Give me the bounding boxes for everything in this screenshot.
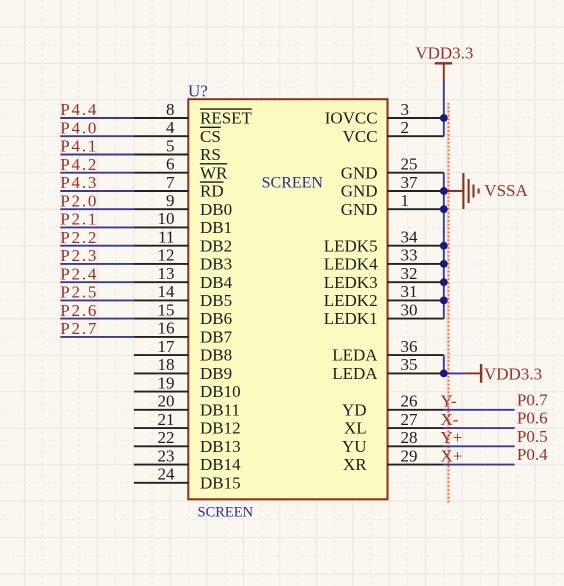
pin 16 DB7 bbox=[134, 319, 233, 347]
pin 6 WR bbox=[134, 155, 228, 183]
pin 24 DB15 bbox=[134, 465, 241, 493]
svg-text:RESET: RESET bbox=[200, 109, 253, 128]
svg-text:DB1: DB1 bbox=[200, 218, 232, 237]
svg-text:DB3: DB3 bbox=[200, 255, 232, 274]
pin 35 LEDA bbox=[332, 355, 444, 383]
svg-text:26: 26 bbox=[401, 392, 418, 411]
pin 37 GND bbox=[341, 173, 444, 201]
wire P4.2 bbox=[60, 172, 134, 174]
net label P4.2 bbox=[60, 155, 98, 174]
svg-text:Y+: Y+ bbox=[441, 428, 463, 447]
svg-text:22: 22 bbox=[158, 428, 175, 447]
svg-text:2: 2 bbox=[401, 118, 410, 137]
junction bbox=[440, 187, 448, 195]
svg-text:P4.0: P4.0 bbox=[60, 118, 98, 137]
pin 26 YD bbox=[342, 392, 444, 420]
svg-text:LEDK2: LEDK2 bbox=[324, 291, 378, 310]
svg-text:SCREEN: SCREEN bbox=[198, 504, 254, 520]
power symbol VDD3.3 (right) bbox=[465, 364, 542, 384]
wire P2.4 bbox=[60, 281, 134, 283]
svg-text:P2.6: P2.6 bbox=[60, 301, 98, 320]
pin 34 LEDK5 bbox=[324, 228, 444, 256]
pin 1 GND bbox=[341, 191, 444, 219]
pin 29 XR bbox=[343, 446, 444, 474]
pin 12 DB3 bbox=[134, 246, 232, 274]
svg-text:GND: GND bbox=[341, 182, 378, 201]
svg-text:DB6: DB6 bbox=[200, 309, 232, 328]
svg-text:P2.4: P2.4 bbox=[60, 264, 98, 283]
net label P2.2 bbox=[60, 228, 98, 247]
net label P0.4 bbox=[517, 445, 548, 464]
wire LEDA to VDD3.3 bbox=[444, 372, 465, 374]
pin 30 LEDK1 bbox=[324, 300, 444, 328]
pin 9 DB0 bbox=[134, 191, 232, 219]
svg-text:P2.5: P2.5 bbox=[60, 283, 98, 302]
wire P4.1 bbox=[60, 154, 134, 156]
svg-text:16: 16 bbox=[158, 319, 175, 338]
net label P0.7 bbox=[517, 390, 548, 409]
pin 32 LEDK3 bbox=[324, 264, 444, 292]
wire P2.5 bbox=[60, 299, 134, 301]
svg-text:28: 28 bbox=[401, 428, 418, 447]
svg-text:P4.2: P4.2 bbox=[60, 155, 98, 174]
svg-text:P2.0: P2.0 bbox=[60, 191, 98, 210]
wire P4.4 bbox=[60, 117, 134, 119]
svg-text:P2.3: P2.3 bbox=[60, 246, 98, 265]
pin 17 DB8 bbox=[134, 337, 232, 365]
svg-text:DB11: DB11 bbox=[200, 400, 240, 419]
pin 10 DB1 bbox=[134, 209, 232, 237]
pin 27 XL bbox=[344, 410, 444, 438]
net label X- bbox=[441, 410, 459, 429]
svg-text:35: 35 bbox=[401, 355, 418, 374]
svg-text:LEDA: LEDA bbox=[332, 364, 378, 383]
junction bbox=[440, 297, 448, 305]
svg-text:P4.4: P4.4 bbox=[60, 100, 98, 119]
svg-text:P4.1: P4.1 bbox=[60, 137, 98, 156]
svg-text:GND: GND bbox=[341, 163, 378, 182]
net label P4.0 bbox=[60, 118, 98, 137]
junction bbox=[440, 370, 448, 378]
svg-text:YU: YU bbox=[342, 437, 367, 456]
svg-text:P2.2: P2.2 bbox=[60, 228, 98, 247]
pin 7 RD bbox=[134, 173, 224, 201]
wire X-/P0.6 bbox=[444, 427, 515, 429]
svg-text:DB10: DB10 bbox=[200, 382, 241, 401]
svg-text:27: 27 bbox=[401, 410, 419, 429]
svg-text:37: 37 bbox=[401, 173, 419, 192]
net label X+ bbox=[441, 446, 463, 465]
wire Y+/P0.5 bbox=[444, 445, 515, 447]
wire X+/P0.4 bbox=[444, 464, 515, 466]
svg-text:VSSA: VSSA bbox=[484, 181, 528, 200]
wire VDD3.3 vertical (pins 3-2) bbox=[443, 80, 445, 136]
svg-text:YD: YD bbox=[342, 400, 367, 419]
wire LEDA vertical (pins 36-35) bbox=[443, 355, 445, 373]
net label P2.5 bbox=[60, 283, 98, 302]
svg-text:LEDK3: LEDK3 bbox=[324, 273, 378, 292]
svg-text:LEDK4: LEDK4 bbox=[324, 255, 378, 274]
junction bbox=[440, 205, 448, 213]
pin 2 VCC bbox=[343, 118, 444, 146]
svg-text:10: 10 bbox=[158, 209, 175, 228]
svg-text:13: 13 bbox=[158, 264, 175, 283]
svg-text:DB5: DB5 bbox=[200, 291, 232, 310]
svg-text:9: 9 bbox=[166, 191, 175, 210]
pin 21 DB12 bbox=[134, 410, 241, 438]
svg-text:DB13: DB13 bbox=[200, 437, 241, 456]
svg-text:GND: GND bbox=[341, 200, 378, 219]
svg-text:XR: XR bbox=[343, 455, 367, 474]
pin 4 CS bbox=[134, 118, 221, 146]
pin 11 DB2 bbox=[134, 228, 232, 256]
pin 22 DB13 bbox=[134, 428, 241, 456]
svg-text:P0.5: P0.5 bbox=[517, 427, 548, 446]
net label P2.0 bbox=[60, 191, 98, 210]
svg-text:SCREEN: SCREEN bbox=[262, 174, 324, 191]
part name SCREEN (below body) bbox=[198, 504, 254, 520]
wire P2.1 bbox=[60, 226, 134, 228]
svg-text:21: 21 bbox=[158, 410, 175, 429]
svg-text:VDD3.3: VDD3.3 bbox=[415, 44, 473, 63]
comment SCREEN (inside body) bbox=[262, 174, 324, 191]
svg-text:P2.7: P2.7 bbox=[60, 319, 98, 338]
junction bbox=[440, 278, 448, 286]
ground symbol VSSA bbox=[444, 173, 529, 209]
svg-text:X+: X+ bbox=[441, 446, 463, 465]
pin 28 YU bbox=[342, 428, 444, 456]
net highlight dotted line bbox=[446, 103, 450, 503]
wire P4.0 bbox=[60, 135, 134, 137]
svg-text:30: 30 bbox=[401, 300, 418, 319]
pin 15 DB6 bbox=[134, 300, 232, 328]
wire P2.7 bbox=[60, 336, 134, 338]
wire P4.3 bbox=[60, 190, 134, 192]
pin 23 DB14 bbox=[134, 446, 241, 474]
svg-text:1: 1 bbox=[401, 191, 410, 210]
wire GND vertical (pins 25-30) bbox=[443, 173, 445, 319]
wire Y-/P0.7 bbox=[444, 409, 515, 411]
svg-text:U?: U? bbox=[188, 82, 208, 101]
svg-text:P0.4: P0.4 bbox=[517, 445, 548, 464]
net label P2.7 bbox=[60, 319, 98, 338]
net label P4.4 bbox=[60, 100, 98, 119]
svg-text:32: 32 bbox=[401, 264, 418, 283]
net label P2.1 bbox=[60, 210, 98, 229]
wire P2.6 bbox=[60, 318, 134, 320]
net label P0.6 bbox=[517, 409, 548, 428]
svg-text:DB2: DB2 bbox=[200, 236, 232, 255]
net label P2.4 bbox=[60, 264, 98, 283]
svg-text:LEDK1: LEDK1 bbox=[324, 309, 378, 328]
svg-text:20: 20 bbox=[158, 392, 175, 411]
svg-text:31: 31 bbox=[401, 282, 418, 301]
svg-text:RD: RD bbox=[200, 182, 224, 201]
pin 25 GND bbox=[341, 155, 444, 183]
svg-text:DB4: DB4 bbox=[200, 273, 233, 292]
svg-text:17: 17 bbox=[158, 337, 176, 356]
svg-text:19: 19 bbox=[158, 373, 175, 392]
net label P4.3 bbox=[60, 173, 98, 192]
svg-text:LEDA: LEDA bbox=[332, 346, 378, 365]
svg-text:14: 14 bbox=[158, 282, 176, 301]
svg-text:IOVCC: IOVCC bbox=[325, 109, 378, 128]
svg-text:15: 15 bbox=[158, 300, 175, 319]
pin 36 LEDA bbox=[332, 337, 444, 365]
svg-text:LEDK5: LEDK5 bbox=[324, 236, 378, 255]
svg-text:P2.1: P2.1 bbox=[60, 210, 98, 229]
svg-text:8: 8 bbox=[166, 100, 175, 119]
svg-text:12: 12 bbox=[158, 246, 175, 265]
net label Y+ bbox=[441, 428, 463, 447]
net label P0.5 bbox=[517, 427, 548, 446]
wire P2.0 bbox=[60, 208, 134, 210]
svg-text:VDD3.3: VDD3.3 bbox=[484, 365, 542, 384]
pin 31 LEDK2 bbox=[324, 282, 444, 310]
wire P2.3 bbox=[60, 263, 134, 265]
svg-text:6: 6 bbox=[166, 155, 175, 174]
svg-text:CS: CS bbox=[200, 127, 221, 146]
svg-text:P0.7: P0.7 bbox=[517, 390, 548, 409]
svg-text:11: 11 bbox=[158, 228, 174, 247]
svg-text:VCC: VCC bbox=[343, 127, 378, 146]
svg-text:33: 33 bbox=[401, 246, 418, 265]
junction bbox=[440, 260, 448, 268]
junction bbox=[440, 114, 448, 122]
pin 18 DB9 bbox=[134, 355, 232, 383]
svg-text:P4.3: P4.3 bbox=[60, 173, 98, 192]
wire P2.2 bbox=[60, 245, 134, 247]
svg-text:XL: XL bbox=[344, 419, 367, 438]
svg-text:P0.6: P0.6 bbox=[517, 409, 548, 428]
svg-text:4: 4 bbox=[166, 118, 175, 137]
svg-text:18: 18 bbox=[158, 355, 175, 374]
svg-text:RS: RS bbox=[200, 145, 221, 164]
svg-text:23: 23 bbox=[158, 446, 175, 465]
svg-text:X-: X- bbox=[441, 410, 459, 429]
net label P2.6 bbox=[60, 301, 98, 320]
pin 13 DB4 bbox=[134, 264, 233, 292]
svg-text:DB7: DB7 bbox=[200, 328, 233, 347]
power symbol VDD3.3 (top) bbox=[415, 44, 473, 81]
svg-text:29: 29 bbox=[401, 446, 418, 465]
svg-text:DB0: DB0 bbox=[200, 200, 232, 219]
net label P2.3 bbox=[60, 246, 98, 265]
svg-text:36: 36 bbox=[401, 337, 418, 356]
designator U? bbox=[188, 82, 208, 101]
pin 3 IOVCC bbox=[325, 100, 444, 128]
svg-text:7: 7 bbox=[166, 173, 175, 192]
svg-text:34: 34 bbox=[401, 228, 419, 247]
pin 20 DB11 bbox=[134, 392, 240, 420]
net label Y- bbox=[441, 392, 457, 411]
svg-text:DB12: DB12 bbox=[200, 419, 241, 438]
svg-text:24: 24 bbox=[158, 465, 176, 484]
svg-text:DB14: DB14 bbox=[200, 455, 241, 474]
net label P4.1 bbox=[60, 137, 98, 156]
pin 14 DB5 bbox=[134, 282, 232, 310]
pin 8 RESET bbox=[134, 100, 253, 128]
svg-text:DB8: DB8 bbox=[200, 346, 232, 365]
svg-text:WR: WR bbox=[200, 163, 228, 182]
svg-text:5: 5 bbox=[166, 136, 175, 155]
pin 33 LEDK4 bbox=[324, 246, 444, 274]
svg-text:DB9: DB9 bbox=[200, 364, 232, 383]
svg-text:25: 25 bbox=[401, 155, 418, 174]
svg-text:Y-: Y- bbox=[441, 392, 457, 411]
svg-text:DB15: DB15 bbox=[200, 473, 241, 492]
svg-text:3: 3 bbox=[401, 100, 410, 119]
pin 19 DB10 bbox=[134, 373, 241, 401]
pin 5 RS bbox=[134, 136, 221, 164]
IC body U? SCREEN bbox=[188, 99, 387, 499]
junction bbox=[440, 242, 448, 250]
